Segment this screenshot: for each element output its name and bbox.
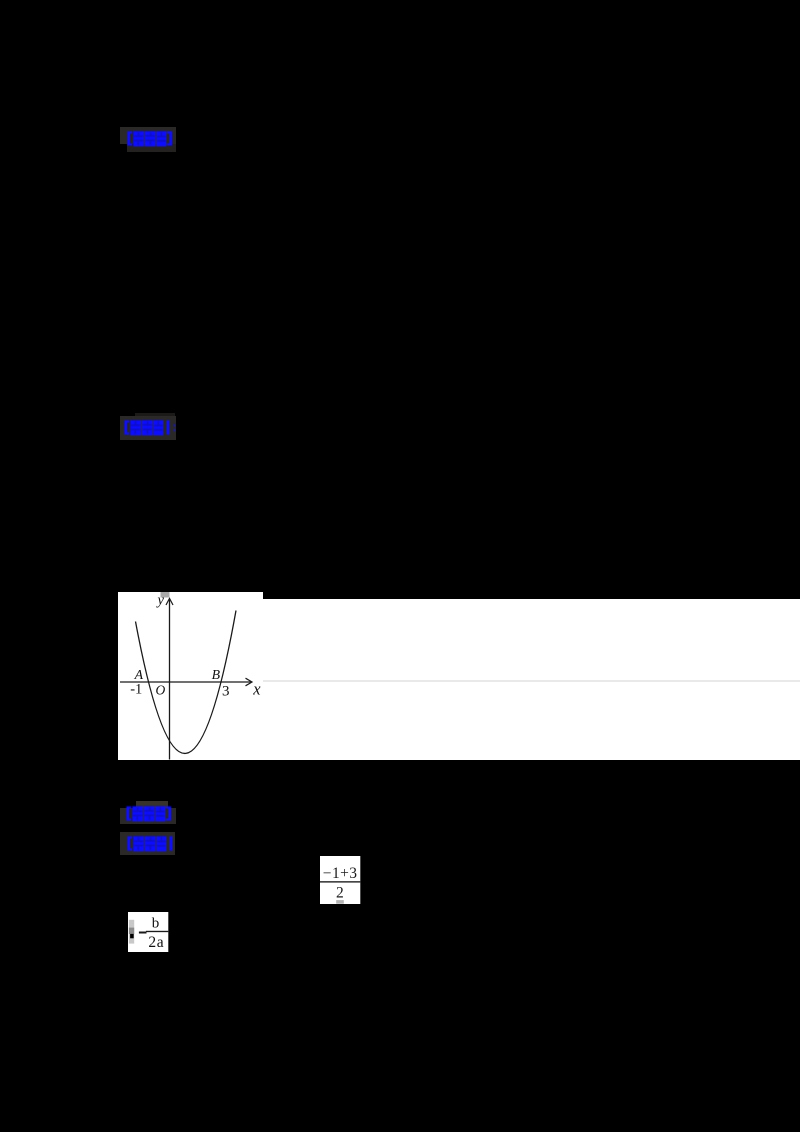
svg-text:2a: 2a bbox=[148, 934, 164, 951]
figure white box (left) bbox=[118, 592, 263, 760]
svg-text:-1: -1 bbox=[130, 682, 142, 698]
F1 gray artifact below 2 bbox=[336, 900, 344, 904]
F1 white box bbox=[320, 856, 360, 904]
gray artifact square at top bbox=[160, 592, 169, 598]
formula F1: (-1+3)/2 bbox=[320, 856, 361, 904]
header H2 highlight box bbox=[120, 416, 176, 440]
header H3 brown rect above bbox=[136, 801, 169, 809]
svg-text:3: 3 bbox=[222, 683, 230, 699]
F2 white box bbox=[128, 912, 168, 952]
svg-text:B: B bbox=[211, 667, 220, 682]
svg-text:b: b bbox=[151, 916, 159, 932]
header H2 blue text blob bbox=[123, 418, 181, 438]
formula F2: -b/2a bbox=[128, 912, 169, 952]
header H2 faint smudge above bbox=[135, 413, 175, 417]
svg-text:O: O bbox=[155, 682, 165, 697]
svg-text:2: 2 bbox=[336, 884, 344, 901]
parabola curve bbox=[135, 611, 236, 754]
shared defs: header blob shapes bbox=[0, 0, 1, 1]
figure: parabola graph bbox=[118, 592, 263, 760]
header H4 blue text blob bbox=[126, 834, 176, 854]
F1 fraction bar bbox=[320, 881, 360, 882]
F2 minus sign bbox=[139, 932, 147, 934]
y-axis arrowhead bbox=[166, 598, 173, 605]
header H3 blue text blob bbox=[125, 804, 175, 824]
header H3 highlight box bbox=[120, 808, 176, 824]
header H1 highlight box top bbox=[120, 127, 176, 144]
x-axis arrowhead bbox=[245, 678, 252, 686]
F2 gray strip darker middle bbox=[129, 928, 134, 934]
header H1 blue text blob bbox=[126, 129, 176, 149]
faint horizontal line in right band bbox=[263, 680, 800, 681]
y-axis bbox=[168, 600, 170, 760]
x-axis bbox=[120, 681, 251, 683]
white band (right) bbox=[263, 599, 800, 760]
F2 gray strip bbox=[129, 920, 134, 944]
svg-text:−1+3: −1+3 bbox=[322, 865, 357, 882]
svg-text:A: A bbox=[133, 667, 143, 682]
F2 black square on strip bbox=[130, 934, 134, 938]
svg-text:x: x bbox=[252, 679, 261, 698]
header H1 highlight box bottom strip bbox=[127, 144, 176, 152]
header H4 highlight box bbox=[120, 832, 176, 855]
svg-text:y: y bbox=[155, 593, 164, 609]
F2 fraction bar bbox=[146, 931, 168, 932]
